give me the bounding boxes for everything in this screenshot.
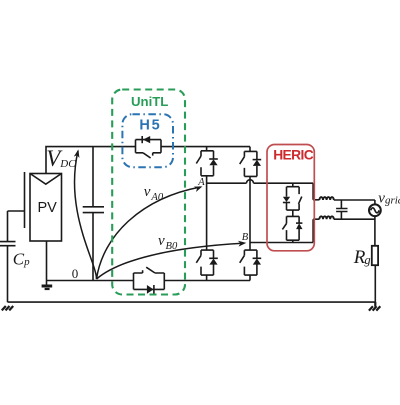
svg-text:0: 0 bbox=[72, 266, 79, 281]
svg-text:UniTL: UniTL bbox=[131, 94, 168, 109]
svg-text:A: A bbox=[197, 177, 205, 188]
svg-text:HERIC: HERIC bbox=[273, 148, 314, 163]
svg-text:B: B bbox=[242, 232, 249, 243]
svg-text:PV: PV bbox=[38, 200, 58, 216]
svg-text:H5: H5 bbox=[139, 118, 161, 134]
